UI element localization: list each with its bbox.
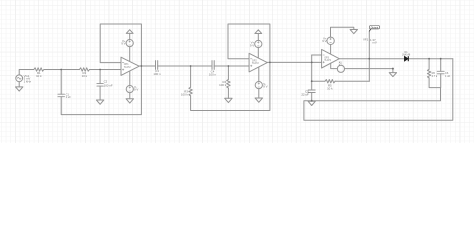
svg-text:mV: mV [373, 40, 377, 44]
feedback wire: inverting input loop over top to output [100, 24, 141, 66]
resistor R4 (vertical) [227, 79, 230, 88]
ground at meter wire end [389, 73, 396, 77]
resistor R5 (feedback) [325, 80, 335, 83]
wire op-amp bottom to V- source [258, 67, 260, 81]
svg-text:1 uF: 1 uF [66, 95, 72, 99]
node B junction (R2/U1+/C2) [99, 69, 101, 71]
source V1 [16, 75, 23, 82]
svg-text:22 uF: 22 uF [301, 92, 309, 96]
svg-text:1 kHz: 1 kHz [24, 80, 32, 84]
svg-text:100 n: 100 n [153, 72, 161, 76]
sine mark inside V1 [17, 77, 21, 79]
meter wire to output vertical [345, 68, 393, 70]
wire junction down to capacitor C6 [440, 59, 442, 72]
wire arrow to V+ source [257, 33, 259, 40]
resistor R6 (vertical) [427, 69, 430, 78]
svg-text:1 uF: 1 uF [445, 74, 451, 78]
svg-text:10 k: 10 k [82, 74, 88, 78]
wire node B2 down to resistor R4 [227, 66, 229, 79]
wire C5 to ground node [311, 93, 313, 101]
svg-text:100 k: 100 k [181, 92, 189, 96]
wire meter end stub down [392, 69, 394, 73]
wire node A2 down to resistor R3 [190, 66, 192, 87]
op-amp U1 [121, 57, 139, 75]
wire junction down to resistor R6 [428, 59, 430, 70]
wire R4 to ground [227, 88, 229, 98]
wire C1 bottom rail to output [61, 66, 141, 115]
wire C2 to ground [99, 86, 101, 100]
junction U1 output / feedback [141, 65, 143, 67]
svg-text:100 nF: 100 nF [104, 83, 113, 87]
wire: node A down to capacitor C1 (feedback cap) [60, 70, 62, 95]
wire: V1 bottom stem [18, 82, 20, 87]
meter AM1 marks [339, 62, 343, 67]
wire: node B down to capacitor C2 [99, 70, 101, 84]
wire R2 to op-amp U1 + input [90, 69, 122, 71]
capacitor C6 plates [437, 71, 444, 74]
wire R5 to output vertical [335, 80, 369, 82]
capacitor C1 plates [58, 94, 65, 97]
op-amp U3 input polarity marks [323, 55, 325, 63]
junction U2 output / feedback [269, 62, 271, 64]
diode D1 [404, 56, 408, 61]
resistor R3 (vertical) [189, 87, 192, 96]
junction meter wire end [392, 68, 394, 70]
svg-text:TL072: TL072 [324, 59, 331, 62]
wire V4 to op-amp top [257, 48, 259, 58]
svg-text:9 V: 9 V [121, 42, 125, 46]
svg-text:TL072: TL072 [124, 66, 131, 69]
op-amp U2 input polarity marks [250, 59, 252, 67]
ground under V1 [16, 87, 23, 91]
node B2 junction (C4/U2+/R4) [228, 65, 230, 67]
wire arrow to V+ source [129, 33, 131, 39]
wire: inverting node vertical [311, 55, 313, 90]
junction output / net label [368, 58, 370, 60]
svg-text:9 V: 9 V [134, 88, 138, 92]
wire V3 to ground [129, 93, 131, 99]
wire R1 to node A [44, 69, 80, 71]
svg-text:100 n: 100 n [209, 72, 217, 76]
feedback wire: inverting input loop over top to output [228, 24, 270, 62]
svg-text:4.7 k: 4.7 k [432, 74, 438, 78]
power arrow (down) stage 3 [350, 30, 357, 34]
svg-text:TL072: TL072 [252, 62, 259, 65]
svg-text:9 V: 9 V [322, 39, 326, 43]
op-amp U1 input polarity marks [122, 63, 124, 71]
ground rail right to RC network [312, 88, 441, 101]
op-amp U3 [322, 49, 340, 68]
wire C4 to op-amp U2 + input [214, 65, 249, 67]
junction U3 inverting node on input wire [311, 62, 313, 64]
capacitor C5 plates (to ground) [308, 90, 315, 93]
feedback line to the right [312, 80, 325, 82]
V- source V5 [255, 82, 262, 89]
component labels [24, 36, 451, 99]
junction ground node [311, 100, 313, 102]
capacitor C2 plates [97, 84, 103, 87]
ground rail left and down to bottom loop [304, 59, 453, 121]
output wire stage 3 [339, 58, 404, 60]
ground under V5 [255, 98, 262, 102]
svg-text:VF1: VF1 [363, 37, 369, 41]
net label vertical wire [368, 31, 370, 81]
wire R3 to bottom rail to output [191, 62, 270, 110]
V+ source V4 [255, 40, 262, 47]
svg-text:+ -: + - [339, 65, 342, 67]
wire V6 bottom to op-amp top edge [330, 45, 332, 54]
ground under V3 [126, 99, 133, 103]
wire V6 top to VEE arrow [331, 27, 354, 37]
capacitor C3 plates (series) [156, 61, 158, 70]
wire R6 bottom L to cap bottom [429, 78, 440, 88]
op-amp U2 [249, 53, 267, 72]
junction diode output / R6 [428, 58, 430, 60]
wire: inverting input stub [312, 54, 322, 56]
svg-text:1N4148: 1N4148 [402, 53, 411, 56]
meter AM1 [337, 65, 344, 72]
wire C6 bottom [440, 74, 442, 88]
wire V5 to ground [258, 89, 260, 98]
svg-text:10 k: 10 k [36, 74, 42, 78]
V- source V3 [126, 86, 133, 93]
resistor R2 [79, 68, 89, 71]
wire op-amp bottom to V- source [129, 71, 131, 85]
junction R5 / C5 node [311, 80, 313, 82]
wire: source top stub [19, 70, 34, 75]
wire C3 to node A2 and on to C4 [158, 65, 212, 67]
output wire stage2 to stage3 [267, 61, 321, 63]
ground under R4 [225, 98, 232, 102]
net label flag "Output" [369, 26, 379, 32]
node A junction (R1/R2/C1) [60, 69, 62, 71]
V+ source V6 [327, 37, 334, 44]
ground arrow at ground node [308, 101, 315, 105]
diode D1 (drawn separately below) wire after diode [409, 58, 453, 60]
svg-text:10 k: 10 k [327, 86, 333, 90]
wire V2 to op-amp top [129, 47, 131, 62]
junction R6 / C6 node [440, 58, 442, 60]
junction dots [60, 58, 441, 102]
capacitor C4 plates (series) [212, 61, 214, 70]
wire op-amp bottom edge to meter [331, 63, 338, 68]
svg-text:Output: Output [371, 26, 379, 29]
V+ source V2 [126, 40, 133, 47]
VCC arrow stage 2 [255, 30, 262, 34]
VCC arrow stage 1 [126, 30, 133, 34]
svg-text:9 V: 9 V [250, 44, 254, 48]
node A2 junction (C3/C4/R3) [190, 65, 192, 67]
svg-text:100 k: 100 k [219, 83, 227, 87]
ground under C2 [96, 100, 103, 104]
output wire stage1 to stage2 cap [139, 65, 155, 67]
resistor R1 [34, 68, 44, 71]
svg-text:9 V: 9 V [263, 85, 267, 89]
